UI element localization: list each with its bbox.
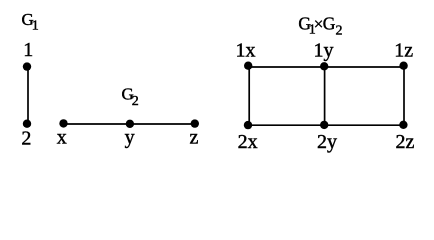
svg-text:2y: 2y (317, 131, 337, 153)
wire edge 1x-1y-1z (top horizontal) (248, 66, 404, 68)
node 2x (vertex dot) (244, 121, 252, 129)
wire edge 1x-2x (left vertical) (248, 67, 250, 125)
wire edge x-y (64, 123, 131, 125)
node 2y (vertex dot) (320, 121, 328, 129)
svg-text:2z: 2z (396, 131, 415, 153)
svg-text:1z: 1z (394, 40, 413, 62)
svg-text:1: 1 (32, 19, 39, 34)
node 2 (vertex dot) (23, 120, 31, 128)
wire edge 1-2 (27, 67, 29, 124)
node 1z (vertex dot) (399, 61, 407, 69)
wire edge 2x-2y-2z (bottom horizontal) (248, 124, 404, 126)
wire edge 1y-2y (middle vertical) (324, 67, 326, 125)
svg-text:y: y (125, 127, 135, 149)
node x (vertex dot) (59, 119, 67, 127)
node 1y (vertex dot) (320, 62, 328, 70)
svg-text:1y: 1y (314, 40, 334, 62)
svg-text:2: 2 (132, 94, 139, 109)
svg-text:x: x (57, 127, 67, 149)
svg-text:2x: 2x (238, 131, 258, 153)
label G2 (graph name, middle) (122, 85, 139, 109)
node 2z (vertex dot) (399, 121, 407, 129)
svg-text:1: 1 (23, 39, 33, 61)
node 1 (vertex dot) (23, 62, 31, 70)
node 1x (vertex dot) (244, 61, 252, 69)
wire edge y-z (130, 123, 195, 125)
node y (vertex dot) (126, 120, 134, 128)
wire edge 1z-2z (right vertical) (403, 67, 405, 125)
svg-text:2: 2 (336, 23, 343, 38)
node z (vertex dot) (191, 119, 199, 127)
svg-text:1x: 1x (236, 40, 256, 62)
svg-text:2: 2 (21, 128, 31, 150)
svg-text:z: z (190, 127, 199, 149)
svg-text:G: G (323, 14, 336, 34)
label G1 (graph name, top left) (22, 10, 39, 33)
label G1xG2 (product graph name, top right) (298, 14, 342, 39)
